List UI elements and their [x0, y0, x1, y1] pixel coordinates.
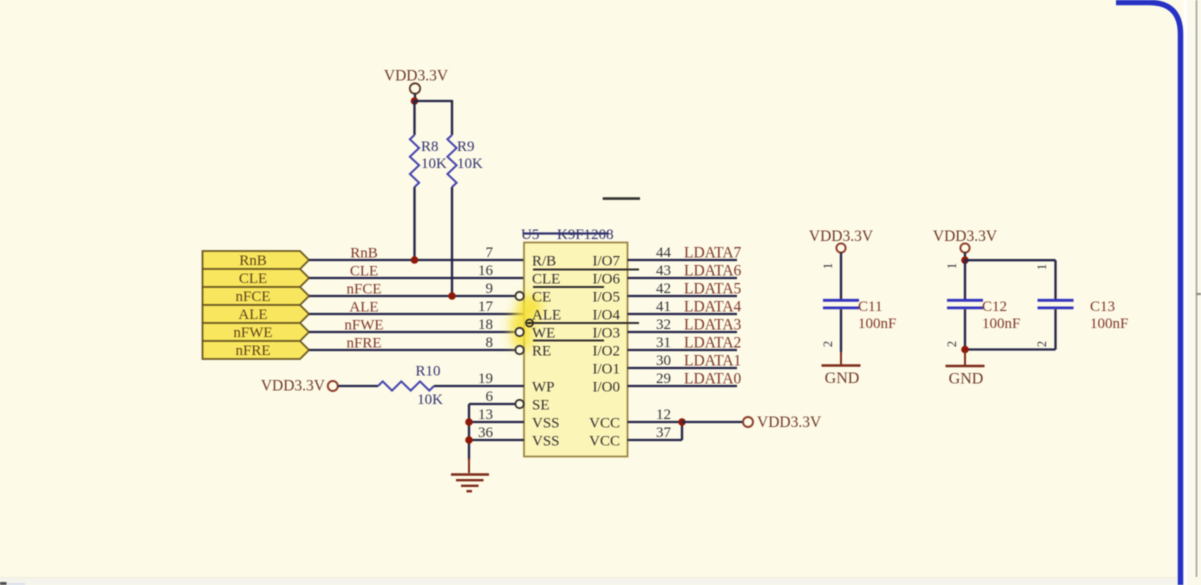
- svg-text:9: 9: [486, 281, 494, 297]
- node junction VSS 36: [465, 436, 473, 444]
- svg-text:LDATA2: LDATA2: [684, 335, 741, 352]
- wire VDD to R10: [338, 385, 378, 387]
- svg-text:12: 12: [656, 407, 671, 423]
- svg-text:18: 18: [478, 317, 493, 333]
- node junction VSS 13: [465, 418, 473, 426]
- wire power port to junction: [414, 94, 416, 101]
- svg-text:C11: C11: [858, 299, 882, 315]
- wire R9 bottom lead to nFCE net: [451, 187, 453, 296]
- wire C13 bottom: [1054, 309, 1056, 349]
- node junction RnB/R8: [411, 256, 419, 264]
- selection highlight glow near ALE/WE pins: [509, 295, 542, 350]
- capacitor C13: [1038, 299, 1074, 302]
- wire net LDATA6 pin 43: [628, 277, 738, 279]
- svg-text:I/O7: I/O7: [593, 254, 621, 270]
- svg-text:GND: GND: [949, 371, 984, 388]
- svg-text:44: 44: [656, 245, 672, 261]
- wire net LDATA2 pin 31: [628, 349, 738, 351]
- wire R9 top lead: [451, 100, 453, 135]
- svg-text:CLE: CLE: [532, 272, 560, 288]
- overbar above RE: [533, 340, 604, 342]
- svg-text:I/O5: I/O5: [593, 290, 621, 306]
- svg-text:30: 30: [656, 353, 671, 369]
- wire C12 top: [964, 260, 966, 299]
- svg-text:10K: 10K: [457, 156, 483, 172]
- bottom-left scrollbar corner mark: [0, 582, 7, 585]
- wire vertical SE/VSS to ground: [468, 404, 470, 460]
- svg-text:1: 1: [821, 263, 835, 269]
- svg-text:LDATA3: LDATA3: [684, 317, 742, 334]
- capacitor C11: [823, 299, 859, 302]
- svg-text:13: 13: [478, 407, 493, 423]
- divider tick: [1196, 293, 1201, 295]
- blue window border (rounded): [1116, 3, 1181, 585]
- overbar above CE: [533, 286, 604, 288]
- svg-text:32: 32: [656, 317, 671, 333]
- svg-text:7: 7: [486, 245, 494, 261]
- resistor R8: [410, 135, 419, 187]
- bottom window strip: [0, 578, 1201, 585]
- svg-text:CE: CE: [532, 290, 551, 306]
- svg-text:ALE: ALE: [349, 300, 378, 316]
- svg-text:19: 19: [478, 371, 493, 387]
- svg-text:10K: 10K: [417, 392, 443, 408]
- ground symbol: [468, 458, 470, 473]
- svg-text:2: 2: [945, 341, 959, 347]
- wire power to junction (C12): [964, 253, 966, 260]
- port flag nFCE: [203, 287, 310, 305]
- svg-text:WE: WE: [532, 326, 555, 342]
- svg-text:I/O0: I/O0: [593, 380, 621, 396]
- svg-text:nFWE: nFWE: [344, 318, 383, 334]
- wire VSS pin 36: [469, 439, 524, 441]
- svg-text:1: 1: [945, 263, 959, 269]
- svg-text:I/O6: I/O6: [593, 272, 621, 288]
- svg-text:100nF: 100nF: [982, 316, 1020, 332]
- wire net LDATA4 pin 41: [628, 313, 738, 315]
- port flag nFRE: [203, 341, 310, 359]
- wire net RnB: [309, 259, 524, 261]
- svg-text:2: 2: [1035, 341, 1049, 347]
- wire C11 top: [840, 253, 842, 299]
- pin bubble RE pin 8: [515, 346, 523, 354]
- port flag ALE: [203, 305, 310, 323]
- svg-text:I/O3: I/O3: [593, 326, 621, 342]
- right margin beyond blue border: [1184, 0, 1201, 585]
- svg-text:16: 16: [478, 263, 494, 279]
- svg-text:VDD3.3V: VDD3.3V: [933, 228, 998, 245]
- panel divider gray line: [1196, 0, 1198, 577]
- svg-text:C13: C13: [1090, 299, 1115, 315]
- svg-text:nFCE: nFCE: [235, 289, 270, 305]
- svg-text:R8: R8: [421, 139, 439, 155]
- wire C11 bottom: [840, 309, 842, 352]
- svg-text:ALE: ALE: [238, 307, 267, 323]
- wire VCC to power port: [682, 421, 743, 423]
- svg-text:1: 1: [1035, 264, 1049, 270]
- svg-text:R9: R9: [457, 139, 475, 155]
- node junction R8/R9 top: [411, 97, 419, 105]
- svg-text:100nF: 100nF: [858, 316, 896, 332]
- wire net LDATA3 pin 32: [628, 331, 738, 333]
- wire net nFCE: [309, 295, 515, 297]
- svg-text:36: 36: [478, 425, 494, 441]
- wire net ALE: [309, 313, 524, 315]
- port flag nFWE: [203, 323, 310, 341]
- pin bubble CE pin 9: [515, 292, 523, 300]
- svg-text:RnB: RnB: [239, 253, 267, 269]
- svg-text:VSS: VSS: [532, 416, 560, 432]
- wire VCC pin 12: [628, 421, 683, 423]
- svg-text:LDATA4: LDATA4: [684, 299, 742, 316]
- wire net nFWE: [309, 331, 515, 333]
- svg-text:VCC: VCC: [589, 434, 620, 450]
- svg-text:VCC: VCC: [589, 416, 620, 432]
- wire net LDATA7 pin 44: [628, 259, 738, 261]
- wire R10 to WP pin 19: [434, 385, 524, 387]
- svg-text:42: 42: [656, 281, 671, 297]
- resistor R10: [378, 381, 434, 390]
- svg-text:R/B: R/B: [532, 254, 556, 270]
- svg-text:LDATA5: LDATA5: [684, 281, 742, 298]
- wire SE pin 6: [469, 403, 515, 405]
- wire C13 bottom to junction: [965, 348, 1056, 350]
- cursor marker at WE pin: [526, 319, 533, 326]
- svg-text:6: 6: [486, 389, 494, 405]
- svg-text:LDATA7: LDATA7: [684, 245, 742, 262]
- wire C12 bottom: [964, 309, 966, 349]
- svg-text:RnB: RnB: [350, 246, 378, 262]
- svg-text:10K: 10K: [421, 156, 447, 172]
- svg-text:VDD3.3V: VDD3.3V: [384, 68, 449, 85]
- svg-text:GND: GND: [825, 370, 860, 387]
- wire net LDATA1 pin 30: [628, 367, 738, 369]
- svg-text:nFCE: nFCE: [346, 282, 381, 298]
- overbar above CLE: [533, 269, 639, 271]
- pin bubble WE pin 18: [515, 328, 523, 336]
- svg-text:LDATA1: LDATA1: [684, 353, 741, 370]
- capacitor C12: [947, 299, 983, 302]
- svg-text:I/O1: I/O1: [593, 362, 621, 378]
- svg-text:RE: RE: [532, 344, 551, 360]
- wire fragment above IC: [603, 197, 640, 200]
- svg-text:VDD3.3V: VDD3.3V: [809, 228, 874, 245]
- svg-text:SE: SE: [532, 398, 550, 414]
- port flag RnB: [203, 251, 310, 269]
- svg-text:2: 2: [821, 341, 835, 347]
- svg-text:nFWE: nFWE: [233, 325, 272, 341]
- svg-text:29: 29: [656, 371, 671, 387]
- svg-text:41: 41: [656, 299, 671, 315]
- wire net LDATA5 pin 42: [628, 295, 738, 297]
- port flag CLE: [203, 269, 310, 287]
- power port VDD3.3V (VCC): [743, 417, 753, 427]
- wire artifact across WE row: [527, 322, 639, 324]
- wire R8 bottom lead to RnB net: [413, 187, 415, 260]
- svg-text:17: 17: [478, 299, 494, 315]
- svg-text:8: 8: [486, 335, 494, 351]
- wire vertical pin37 to pin12 net: [681, 422, 683, 440]
- svg-text:CLE: CLE: [350, 264, 378, 280]
- svg-text:VDD3.3V: VDD3.3V: [261, 378, 326, 395]
- wire net nFRE: [309, 349, 515, 351]
- wire stub crossing designator text: [524, 232, 608, 234]
- wire R8 top lead: [413, 100, 415, 135]
- svg-text:VSS: VSS: [532, 434, 560, 450]
- wire VSS pin 13: [469, 421, 524, 423]
- node junction C12/C13 top: [961, 256, 969, 264]
- svg-text:C12: C12: [982, 299, 1007, 315]
- wire junction to R9 branch: [414, 100, 453, 102]
- wire C13 top: [1054, 260, 1056, 299]
- svg-text:WP: WP: [532, 380, 555, 396]
- wire junction to C13 top: [965, 259, 1056, 261]
- wire net CLE: [309, 277, 524, 279]
- ground GND (C12): [964, 351, 966, 365]
- svg-text:nFRE: nFRE: [346, 336, 381, 352]
- svg-text:R10: R10: [415, 364, 440, 380]
- node junction VCC: [678, 418, 686, 426]
- svg-text:nFRE: nFRE: [235, 343, 270, 359]
- pin bubble SE pin 6: [515, 400, 523, 408]
- wire net LDATA0 pin 29: [628, 385, 738, 387]
- node junction C12/C13 bottom: [961, 346, 969, 354]
- svg-text:VDD3.3V: VDD3.3V: [757, 414, 822, 431]
- wire VCC pin 37: [628, 439, 683, 441]
- svg-text:37: 37: [656, 425, 672, 441]
- svg-text:K9F1208: K9F1208: [557, 227, 614, 243]
- svg-text:I/O2: I/O2: [593, 344, 621, 360]
- svg-text:ALE: ALE: [532, 308, 561, 324]
- node junction nFCE/R9: [448, 292, 456, 300]
- svg-text:I/O4: I/O4: [593, 308, 621, 324]
- svg-text:U5: U5: [521, 227, 539, 243]
- ground GND (C11): [840, 352, 842, 365]
- resistor R9: [447, 135, 456, 187]
- op-amp-style IC body U5 K9F1208: [524, 243, 628, 457]
- svg-text:100nF: 100nF: [1090, 316, 1128, 332]
- svg-text:LDATA0: LDATA0: [684, 371, 742, 388]
- svg-text:CLE: CLE: [239, 271, 267, 287]
- svg-text:LDATA6: LDATA6: [684, 263, 742, 280]
- svg-text:43: 43: [656, 263, 671, 279]
- svg-text:31: 31: [656, 335, 671, 351]
